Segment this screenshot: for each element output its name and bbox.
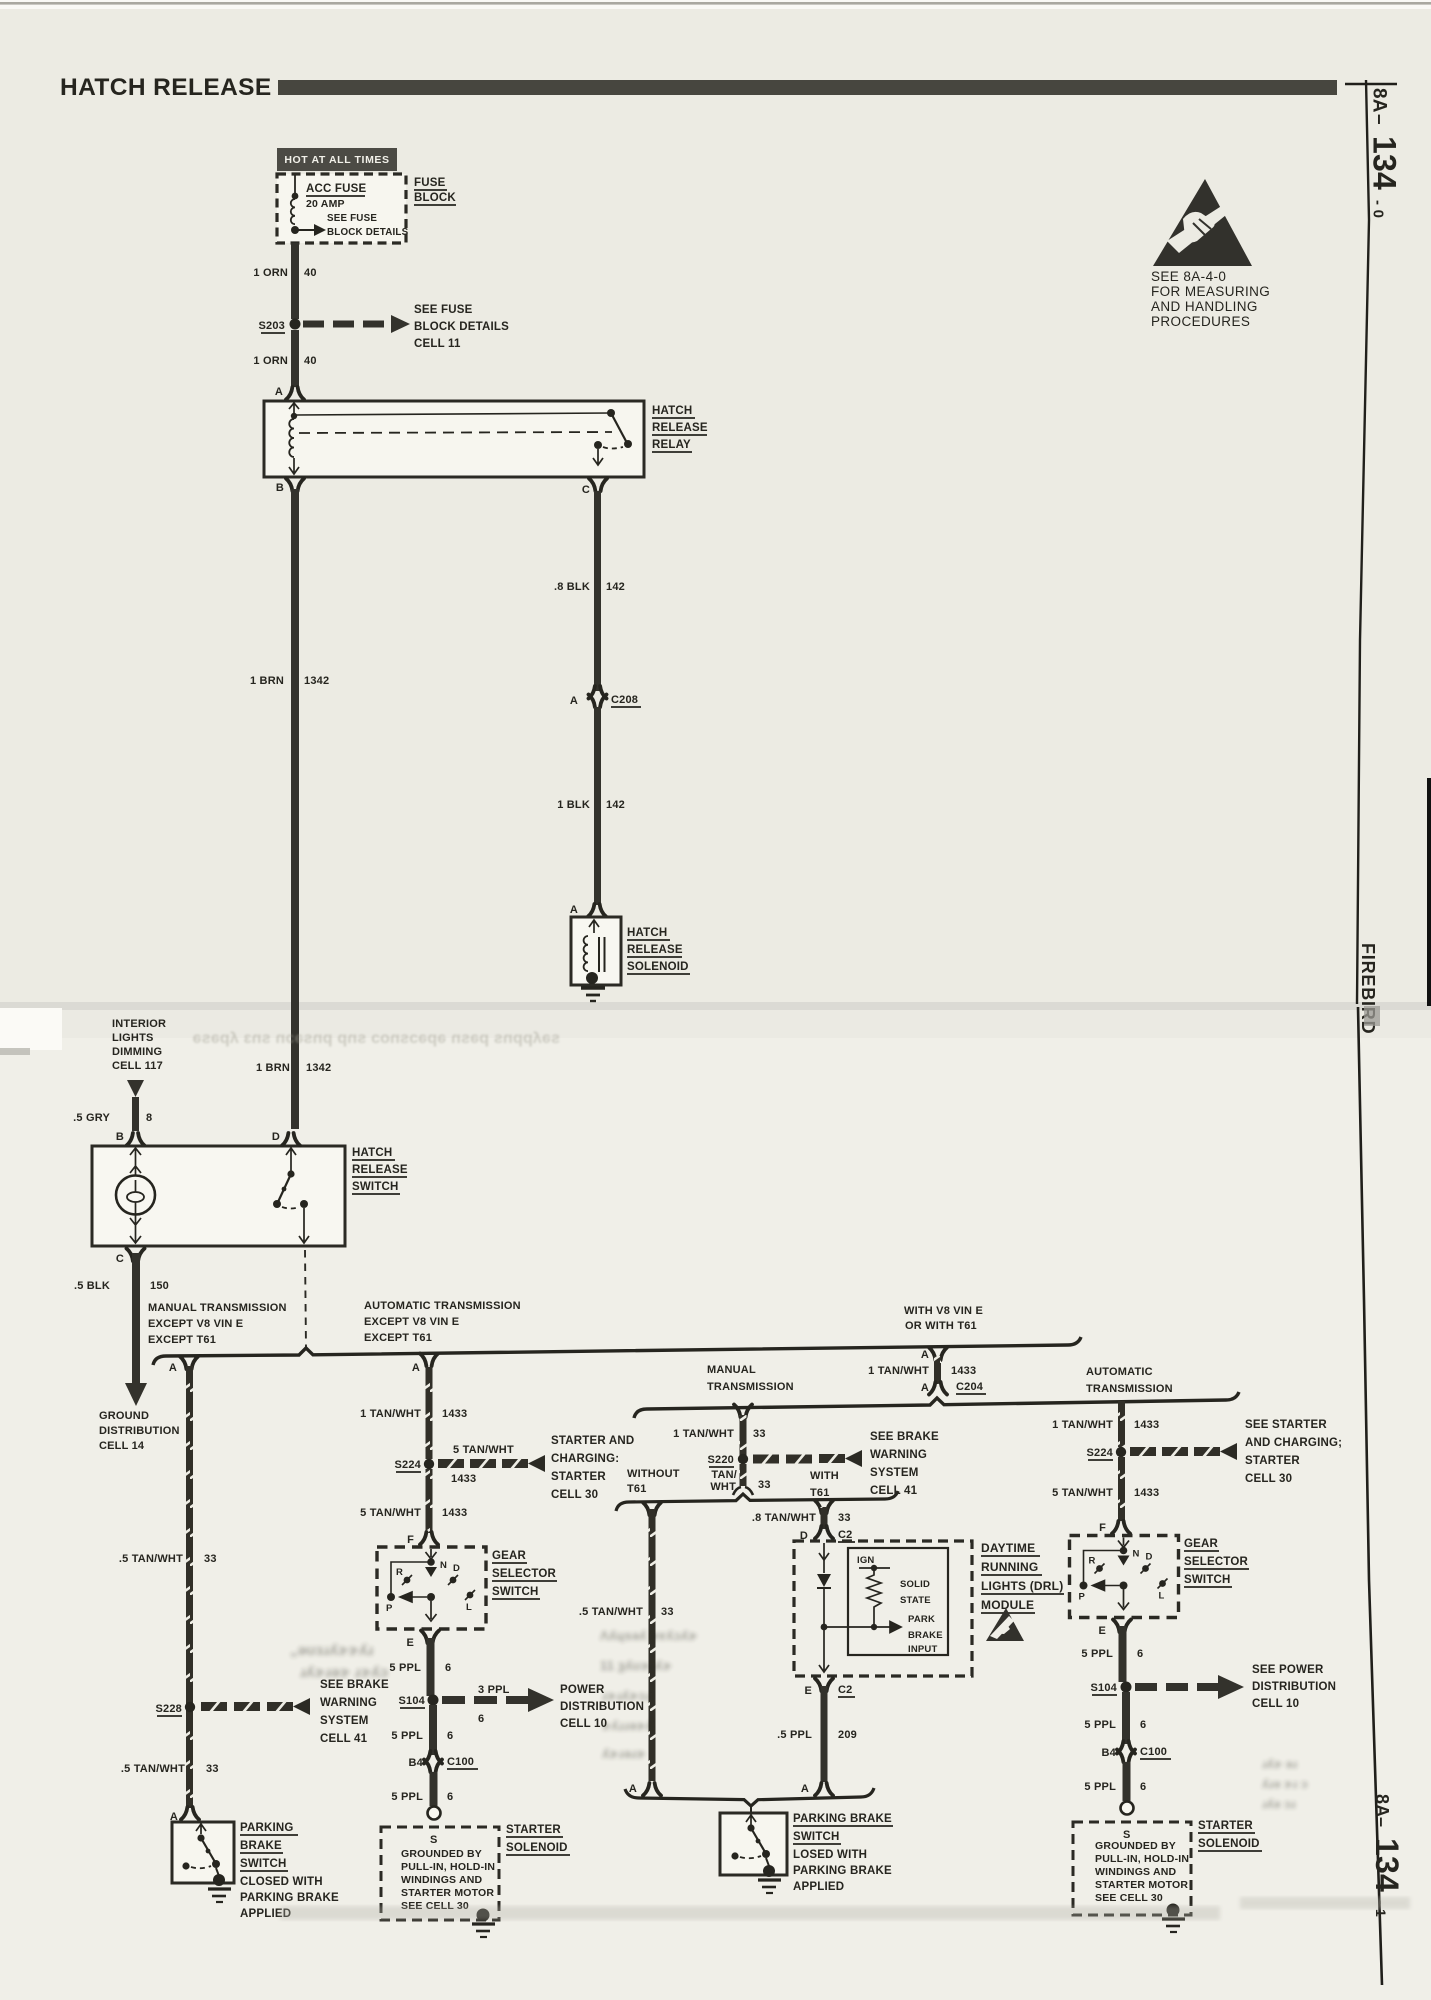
- main bus brace: [153, 1337, 1081, 1365]
- svg-text:A: A: [801, 1783, 809, 1795]
- svg-text:C204: C204: [956, 1381, 984, 1393]
- svg-text:PARKING BRAKE: PARKING BRAKE: [240, 1892, 339, 1904]
- svg-text:DISTRIBUTION: DISTRIBUTION: [1252, 1681, 1336, 1693]
- svg-text:ʎɹǝ ɝɹ ɔ: ʎɹǝ ɝɹ ɔ: [1262, 1777, 1308, 1791]
- DRL internal input line with diode: [819, 1543, 829, 1560]
- svg-text:ɹɝɹʎɝɔɹ: ɹɝɹʎɝɔɹ: [602, 1688, 651, 1703]
- parking brake switch box (mid): [720, 1813, 787, 1875]
- mid branch terminal on sub-bus: [734, 1405, 752, 1418]
- svg-text:OR WITH T61: OR WITH T61: [905, 1320, 977, 1332]
- svg-text:WITH V8 VIN E: WITH V8 VIN E: [904, 1305, 983, 1317]
- svg-text:5 TAN/WHT: 5 TAN/WHT: [1052, 1487, 1113, 1499]
- svg-text:A: A: [570, 695, 578, 707]
- svg-text:TRANSMISSION: TRANSMISSION: [1086, 1383, 1173, 1395]
- svg-text:S203: S203: [259, 320, 286, 332]
- svg-text:134: 134: [1367, 136, 1403, 190]
- svg-text:142: 142: [606, 581, 625, 593]
- svg-text:HATCH: HATCH: [652, 405, 692, 417]
- dashed hatched arrow to starter cell 30: [438, 1458, 464, 1470]
- svg-text:P: P: [386, 1603, 393, 1614]
- svg-text:FUSE: FUSE: [414, 177, 446, 189]
- svg-text:S228: S228: [156, 1703, 183, 1715]
- svg-text:CELL 41: CELL 41: [320, 1733, 368, 1745]
- svg-text:CELL 14: CELL 14: [99, 1440, 145, 1452]
- dashed arrow to power distribution (right): [1135, 1683, 1218, 1691]
- svg-text:S220: S220: [708, 1454, 735, 1466]
- svg-text:5 PPL: 5 PPL: [391, 1730, 423, 1742]
- svg-text:1 BRN: 1 BRN: [250, 675, 284, 687]
- svg-text:ɝʎɹɹǝɝʎ: ɝʎɹɹǝɝʎ: [602, 1718, 654, 1733]
- svg-text:A: A: [921, 1349, 929, 1361]
- svg-text:RELAY: RELAY: [652, 439, 691, 451]
- switch contact from D: [286, 1148, 296, 1171]
- park brake input resistor: [867, 1571, 881, 1612]
- ESD note text: [1151, 269, 1270, 329]
- WITHOUT T61 label: [627, 1468, 680, 1495]
- starter solenoid dashed box (right): [1073, 1822, 1191, 1915]
- page number 8A-134-0 rotated: [1367, 88, 1403, 218]
- svg-text:CLOSED WITH: CLOSED WITH: [240, 1876, 323, 1888]
- svg-text:INPUT: INPUT: [908, 1644, 938, 1655]
- svg-text:SEE STARTER: SEE STARTER: [1245, 1419, 1327, 1431]
- svg-text:6: 6: [1140, 1781, 1146, 1793]
- svg-text:S104: S104: [399, 1695, 426, 1707]
- svg-text:C: C: [582, 484, 590, 496]
- svg-text:6: 6: [1140, 1719, 1146, 1731]
- header bar: [278, 80, 1337, 95]
- gear selector switch dashed box (left): [377, 1547, 486, 1629]
- wire 5 PPL 6 below S104 (right): [1122, 1692, 1130, 1744]
- svg-text:- 0: - 0: [1370, 200, 1387, 218]
- svg-text:SEE 8A-4-0: SEE 8A-4-0: [1151, 269, 1226, 284]
- svg-text:33: 33: [204, 1553, 217, 1565]
- svg-text:5 PPL: 5 PPL: [1081, 1648, 1113, 1660]
- starter solenoid (left) ground: [477, 1909, 490, 1922]
- svg-text:AUTOMATIC TRANSMISSION: AUTOMATIC TRANSMISSION: [364, 1300, 521, 1312]
- svg-text:F: F: [407, 1534, 414, 1546]
- power distribution cell 10 text: [560, 1684, 644, 1730]
- svg-text:STARTER: STARTER: [551, 1471, 606, 1483]
- svg-text:T61: T61: [627, 1483, 647, 1495]
- relay dashed actuation line: [299, 432, 612, 433]
- svg-text:WINDINGS AND: WINDINGS AND: [401, 1874, 483, 1886]
- ESD warning triangle top right: [1153, 179, 1252, 266]
- svg-text:WINDINGS AND: WINDINGS AND: [1095, 1866, 1177, 1878]
- svg-text:T61: T61: [810, 1487, 830, 1499]
- svg-text:SEE FUSE: SEE FUSE: [414, 304, 473, 316]
- DRL solid state inner box: [848, 1548, 948, 1655]
- svg-text:1 TAN/WHT: 1 TAN/WHT: [1052, 1419, 1113, 1431]
- svg-text:AND HANDLING: AND HANDLING: [1151, 299, 1258, 314]
- automatic transmission label: [1086, 1366, 1173, 1395]
- without T61 wire .5 TAN/WHT 33: [643, 1503, 661, 1516]
- wire .5 GRY 8: [132, 1097, 139, 1131]
- svg-text:5 PPL: 5 PPL: [389, 1662, 421, 1674]
- svg-text:.5 PPL: .5 PPL: [777, 1729, 812, 1741]
- svg-text:R: R: [396, 1567, 403, 1578]
- svg-text:HATCH: HATCH: [352, 1147, 392, 1159]
- svg-text:CELL 117: CELL 117: [112, 1060, 163, 1072]
- svg-text:STARTER AND: STARTER AND: [551, 1435, 634, 1447]
- svg-text:A: A: [629, 1783, 637, 1795]
- svg-text:RELEASE: RELEASE: [652, 422, 708, 434]
- svg-text:5 PPL: 5 PPL: [1084, 1719, 1116, 1731]
- svg-text:IGN: IGN: [857, 1555, 875, 1566]
- wire 1 TAN/WHT 1433 (right): [1118, 1401, 1125, 1447]
- svg-text:HATCH RELEASE: HATCH RELEASE: [60, 74, 272, 101]
- svg-text:DIMMING: DIMMING: [112, 1046, 162, 1058]
- svg-text:40: 40: [304, 355, 317, 367]
- svg-text:8A: 8A: [1369, 88, 1390, 113]
- wire 1 BRN 1342: [291, 489, 299, 1129]
- dashed wire from switch to bus: [305, 1250, 306, 1348]
- svg-text:EXCEPT V8 VIN E: EXCEPT V8 VIN E: [148, 1318, 243, 1330]
- hatch release switch box: [92, 1146, 345, 1246]
- relay switch arm: [611, 413, 627, 443]
- page edge rule upper: [1345, 80, 1397, 1004]
- svg-text:WHT: WHT: [710, 1481, 736, 1493]
- svg-text:„ǝʊɜɹʎɝɝʎɹ: „ǝʊɜɹʎɝɝʎɹ: [290, 1642, 374, 1659]
- right edge black bar: [1427, 778, 1431, 1006]
- svg-text:APPLIED: APPLIED: [793, 1881, 844, 1893]
- wire .8 BLK 142: [594, 491, 601, 691]
- svg-text:B4: B4: [1102, 1747, 1117, 1759]
- svg-text:E: E: [406, 1637, 414, 1649]
- svg-text:ACC FUSE: ACC FUSE: [306, 183, 367, 195]
- svg-text:LOSED WITH: LOSED WITH: [793, 1849, 867, 1861]
- svg-text:GROUND: GROUND: [99, 1410, 149, 1422]
- splice S203: [290, 319, 301, 330]
- svg-text:C2: C2: [838, 1684, 852, 1696]
- svg-text:SYSTEM: SYSTEM: [870, 1467, 919, 1479]
- svg-text:GROUNDED BY: GROUNDED BY: [401, 1848, 482, 1860]
- solenoid ground: [581, 988, 605, 1001]
- wire 5 TAN/WHT 1433 (right): [1118, 1457, 1125, 1521]
- parking brake switch (mid) ground: [758, 1880, 781, 1893]
- svg-text:ɹʎɝɹǝɝ ɹɝʎɔ: ɹʎɝɹǝɝ ɹɝʎɔ: [300, 1664, 388, 1681]
- svg-text:GROUNDED BY: GROUNDED BY: [1095, 1840, 1176, 1852]
- svg-text:5 PPL: 5 PPL: [1084, 1781, 1116, 1793]
- svg-text:DAYTIME: DAYTIME: [981, 1541, 1035, 1555]
- HOT AT ALL TIMES box: [277, 148, 397, 171]
- svg-text:A: A: [921, 1382, 929, 1394]
- svg-text:.5 TAN/WHT: .5 TAN/WHT: [121, 1763, 185, 1775]
- svg-text:MANUAL: MANUAL: [707, 1364, 756, 1376]
- svg-text:C: C: [116, 1253, 124, 1265]
- svg-text:ɹʎɝ ǝɹ: ɹʎɝ ǝɹ: [1262, 1757, 1298, 1771]
- svg-text:səʎppns pəsn əpəɔsnoɔ snp pnsə: səʎppns pəsn əpəɔsnoɔ snp pnsəɔn snɜ ʎpə…: [192, 1030, 560, 1047]
- svg-text:11 ƺʎʊɝɹʎɝ: 11 ƺʎʊɝɹʎɝ: [600, 1658, 672, 1673]
- dome lamp symbol: [130, 1148, 141, 1175]
- svg-text:E: E: [804, 1685, 812, 1697]
- svg-text:1 BLK: 1 BLK: [557, 799, 590, 811]
- svg-text:A: A: [275, 386, 283, 398]
- svg-text:SEE CELL 30: SEE CELL 30: [1095, 1892, 1163, 1904]
- svg-text:WARNING: WARNING: [320, 1697, 377, 1709]
- svg-text:8: 8: [146, 1112, 152, 1124]
- svg-text:5 PPL: 5 PPL: [391, 1791, 423, 1803]
- svg-text:PULL-IN, HOLD-IN: PULL-IN, HOLD-IN: [1095, 1853, 1189, 1865]
- page background lower scan: [0, 1005, 1431, 2000]
- svg-text:142: 142: [606, 799, 625, 811]
- svg-text:40: 40: [304, 267, 317, 279]
- wire 1 ORN 40 upper: [291, 243, 299, 319]
- svg-text:SWITCH: SWITCH: [352, 1181, 399, 1193]
- starter solenoid (right) ground: [1167, 1904, 1180, 1917]
- svg-text:B4: B4: [409, 1757, 424, 1769]
- parking brake switch box (left): [172, 1822, 234, 1883]
- svg-text:S104: S104: [1091, 1682, 1118, 1694]
- svg-text:GEAR: GEAR: [492, 1550, 527, 1562]
- wire 1 ORN 40 lower: [291, 330, 299, 387]
- svg-text:CELL 10: CELL 10: [1252, 1698, 1299, 1710]
- svg-text:PARK: PARK: [908, 1614, 935, 1625]
- svg-text:S: S: [430, 1834, 438, 1846]
- wire 5 PPL 6 below C100 (right): [1123, 1762, 1131, 1801]
- svg-text:SWITCH: SWITCH: [492, 1586, 539, 1598]
- svg-text:SWITCH: SWITCH: [240, 1858, 287, 1870]
- svg-text:Ʌʎɥsǝʎ ǝɤʎɔʎɝ: Ʌʎɥsǝʎ ǝɤʎɔʎɝ: [600, 1628, 697, 1643]
- svg-text:SYSTEM: SYSTEM: [320, 1715, 369, 1727]
- dashed hatched reference arrow (brake warning): [753, 1453, 779, 1465]
- svg-text:33: 33: [661, 1606, 674, 1618]
- svg-text:C100: C100: [1140, 1746, 1167, 1758]
- svg-text:CELL 11: CELL 11: [414, 338, 461, 350]
- svg-text:E: E: [1098, 1625, 1106, 1637]
- without/with T61 bus brace: [616, 1491, 898, 1511]
- svg-text:6: 6: [478, 1713, 484, 1725]
- svg-text:S224: S224: [395, 1459, 422, 1471]
- svg-text:HOT AT ALL TIMES: HOT AT ALL TIMES: [284, 154, 389, 166]
- svg-text:LIGHTS: LIGHTS: [112, 1032, 154, 1044]
- wire .5 BLK 150 to ground distribution: [132, 1253, 140, 1383]
- interior lights dimming reference: [112, 1018, 166, 1072]
- svg-text:POWER: POWER: [560, 1684, 605, 1696]
- svg-text:1 BRN: 1 BRN: [256, 1062, 290, 1074]
- svg-text:BLOCK: BLOCK: [414, 192, 456, 204]
- wire 5 PPL 6 below C100: [430, 1772, 438, 1806]
- svg-text:1 TAN/WHT: 1 TAN/WHT: [868, 1365, 929, 1377]
- svg-text:L: L: [466, 1602, 472, 1613]
- svg-text:SWITCH: SWITCH: [793, 1831, 840, 1843]
- svg-text:MODULE: MODULE: [981, 1598, 1034, 1612]
- svg-text:CELL 30: CELL 30: [551, 1489, 598, 1501]
- daytime running lights DRL module dashed box: [794, 1541, 972, 1676]
- svg-text:5 TAN/WHT: 5 TAN/WHT: [453, 1444, 514, 1456]
- gear selector switch dashed box (right): [1070, 1536, 1179, 1618]
- svg-text:STARTER: STARTER: [506, 1824, 561, 1836]
- svg-text:EXCEPT T61: EXCEPT T61: [364, 1332, 432, 1344]
- svg-text:1433: 1433: [442, 1507, 467, 1519]
- svg-text:WITH: WITH: [810, 1470, 839, 1482]
- WITH T61 label: [810, 1470, 839, 1499]
- svg-text:8A: 8A: [1372, 1794, 1392, 1817]
- svg-text:DISTRIBUTION: DISTRIBUTION: [99, 1425, 180, 1437]
- parking brake bracket (inverted brace): [625, 1788, 874, 1806]
- svg-text:1 ORN: 1 ORN: [253, 267, 288, 279]
- arrow from interior lights: [127, 1080, 144, 1097]
- wire .5 PPL 209: [821, 1686, 828, 1782]
- starter solenoid dashed box (left): [381, 1827, 499, 1920]
- svg-text:AND CHARGING;: AND CHARGING;: [1245, 1437, 1342, 1449]
- branch headers: [148, 1302, 287, 1346]
- svg-text:A: A: [570, 904, 578, 916]
- svg-text:1342: 1342: [304, 675, 329, 687]
- svg-text:STARTER MOTOR: STARTER MOTOR: [1095, 1879, 1188, 1891]
- svg-text:–: –: [1372, 1817, 1392, 1827]
- manual transmission label: [707, 1364, 794, 1393]
- FIREBIRD rotated edge label: [1358, 943, 1378, 1034]
- svg-text:33: 33: [753, 1428, 766, 1440]
- see brake warning system cell 41 (left): [320, 1679, 389, 1745]
- relay C lead: [593, 449, 603, 465]
- wire 1 TAN/WHT 33: [740, 1415, 747, 1455]
- ground distribution cell 14 text: [99, 1410, 180, 1452]
- svg-text:B: B: [276, 482, 284, 494]
- svg-text:.8 BLK: .8 BLK: [554, 581, 590, 593]
- svg-text:209: 209: [838, 1729, 857, 1741]
- svg-text:PROCEDURES: PROCEDURES: [1151, 314, 1250, 329]
- svg-text:BLOCK DETAILS: BLOCK DETAILS: [414, 321, 509, 333]
- svg-text:CHARGING:: CHARGING:: [551, 1453, 619, 1465]
- svg-text:SOLENOID: SOLENOID: [506, 1842, 568, 1854]
- dashed hatched arrow to brake warning (left): [201, 1701, 227, 1713]
- see starter and charging text (right): [1245, 1419, 1342, 1485]
- svg-text:TAN/: TAN/: [711, 1469, 737, 1481]
- svg-text:SEE POWER: SEE POWER: [1252, 1664, 1324, 1676]
- wire 5 TAN/WHT 1433: [426, 1469, 433, 1533]
- svg-text:3 PPL: 3 PPL: [478, 1684, 510, 1696]
- svg-text:134: 134: [1369, 1838, 1405, 1892]
- svg-text:33: 33: [206, 1763, 219, 1775]
- svg-text:CELL 10: CELL 10: [560, 1718, 607, 1730]
- svg-text:SEE BRAKE: SEE BRAKE: [870, 1431, 939, 1443]
- svg-text:HATCH: HATCH: [627, 927, 667, 939]
- wire 1 BLK 142: [594, 707, 601, 905]
- svg-text:150: 150: [150, 1280, 169, 1292]
- svg-text:STARTER: STARTER: [1198, 1820, 1253, 1832]
- svg-text:1433: 1433: [951, 1365, 976, 1377]
- white wedge lower-left of seam: [0, 1008, 62, 1050]
- svg-text:1342: 1342: [306, 1062, 331, 1074]
- svg-text:BRAKE: BRAKE: [240, 1840, 282, 1852]
- svg-text:.5 GRY: .5 GRY: [73, 1112, 110, 1124]
- dashed hatched arrow to starter cell 30 (right): [1130, 1446, 1156, 1458]
- svg-text:INTERIOR: INTERIOR: [112, 1018, 166, 1030]
- svg-text:STATE: STATE: [900, 1595, 931, 1606]
- svg-text:C2: C2: [838, 1529, 852, 1541]
- svg-text:LIGHTS (DRL): LIGHTS (DRL): [981, 1579, 1063, 1593]
- svg-text:BRAKE: BRAKE: [908, 1630, 943, 1641]
- top scan edge line: [0, 0, 1431, 9]
- svg-text:N: N: [440, 1560, 447, 1571]
- svg-text:GEAR: GEAR: [1184, 1538, 1219, 1550]
- with T61 wire .8 TAN/WHT 33: [815, 1501, 833, 1514]
- svg-text:1433: 1433: [1134, 1419, 1159, 1431]
- small ESD triangle: [986, 1608, 1024, 1641]
- svg-text:ʎɝɹǝɹɝ: ʎɝɹǝɹɝ: [602, 1746, 646, 1761]
- svg-text:A: A: [169, 1362, 177, 1374]
- ACC FUSE element: [294, 175, 296, 194]
- svg-text:RELEASE: RELEASE: [627, 944, 683, 956]
- svg-text:6: 6: [447, 1791, 453, 1803]
- svg-text:–: –: [1369, 114, 1390, 125]
- page edge rule lower: [1358, 1007, 1382, 1985]
- svg-text:SOLID: SOLID: [900, 1579, 930, 1590]
- svg-text:STARTER: STARTER: [1245, 1455, 1300, 1467]
- svg-text:SELECTOR: SELECTOR: [1184, 1556, 1249, 1568]
- svg-text:1 TAN/WHT: 1 TAN/WHT: [673, 1428, 734, 1440]
- svg-text:AUTOMATIC: AUTOMATIC: [1086, 1366, 1153, 1378]
- svg-text:PARKING BRAKE: PARKING BRAKE: [793, 1865, 892, 1877]
- wire 5 PPL 6 (right): [1119, 1626, 1127, 1682]
- see brake warning system cell 41 (mid): [870, 1431, 939, 1497]
- svg-text:.5 BLK: .5 BLK: [74, 1280, 110, 1292]
- svg-text:1 ORN: 1 ORN: [253, 355, 288, 367]
- svg-text:RELEASE: RELEASE: [352, 1164, 408, 1176]
- svg-text:33: 33: [758, 1479, 771, 1491]
- svg-text:.5 TAN/WHT: .5 TAN/WHT: [119, 1553, 183, 1565]
- svg-text:.5 TAN/WHT: .5 TAN/WHT: [579, 1606, 643, 1618]
- svg-text:CELL 30: CELL 30: [1245, 1473, 1292, 1485]
- solenoid coil and core: [589, 920, 599, 933]
- svg-text:WITHOUT: WITHOUT: [627, 1468, 680, 1480]
- hatch release relay box: [264, 401, 644, 477]
- svg-text:SOLENOID: SOLENOID: [1198, 1838, 1260, 1850]
- svg-text:A: A: [412, 1362, 420, 1374]
- see power distribution cell 10 text: [1252, 1664, 1336, 1710]
- left column wire .5 TAN/WHT 33: [186, 1366, 193, 1808]
- svg-text:SWITCH: SWITCH: [1184, 1574, 1231, 1586]
- starter solenoid terminal S (left): [428, 1807, 441, 1820]
- starter and charging text: [551, 1435, 634, 1501]
- svg-text:TRANSMISSION: TRANSMISSION: [707, 1381, 794, 1393]
- svg-text:6: 6: [447, 1730, 453, 1742]
- svg-text:1433: 1433: [442, 1408, 467, 1420]
- parking brake switch (left) ground: [208, 1889, 231, 1902]
- transmission sub-bus brace: [634, 1392, 1239, 1418]
- svg-text:33: 33: [838, 1512, 851, 1524]
- svg-text:D: D: [453, 1563, 460, 1574]
- relay contact wire: [296, 413, 611, 415]
- wire 5 PPL 6 below S104: [429, 1705, 437, 1755]
- page background upper scan: [0, 0, 1431, 1005]
- svg-text:EXCEPT T61: EXCEPT T61: [148, 1334, 216, 1346]
- svg-text:FOR MEASURING: FOR MEASURING: [1151, 284, 1270, 299]
- svg-text:ɹʎǝ ɔɹ: ɹʎǝ ɔɹ: [1262, 1797, 1296, 1811]
- page number 8A-134-1 rotated: [1369, 1794, 1405, 1917]
- svg-text:5 TAN/WHT: 5 TAN/WHT: [360, 1507, 421, 1519]
- svg-text:D: D: [272, 1131, 280, 1143]
- svg-text:EXCEPT V8 VIN E: EXCEPT V8 VIN E: [364, 1316, 459, 1328]
- svg-text:RUNNING: RUNNING: [981, 1560, 1038, 1574]
- svg-text:1433: 1433: [1134, 1487, 1159, 1499]
- svg-text:S224: S224: [1087, 1447, 1114, 1459]
- svg-text:.8 TAN/WHT: .8 TAN/WHT: [752, 1512, 816, 1524]
- svg-text:C100: C100: [447, 1756, 474, 1768]
- svg-text:PARKING: PARKING: [240, 1822, 294, 1834]
- starter solenoid terminal S (right): [1121, 1802, 1134, 1815]
- svg-text:PULL-IN, HOLD-IN: PULL-IN, HOLD-IN: [401, 1861, 495, 1873]
- hatch release solenoid box: [571, 917, 621, 985]
- svg-text:6: 6: [1137, 1648, 1143, 1660]
- svg-text:1 TAN/WHT: 1 TAN/WHT: [360, 1408, 421, 1420]
- svg-text:C208: C208: [611, 694, 638, 706]
- svg-text:B: B: [116, 1131, 124, 1143]
- svg-text:MANUAL TRANSMISSION: MANUAL TRANSMISSION: [148, 1302, 287, 1314]
- scan seam band: [0, 1002, 1431, 1010]
- wire 1 TAN/WHT 1433: [426, 1367, 433, 1459]
